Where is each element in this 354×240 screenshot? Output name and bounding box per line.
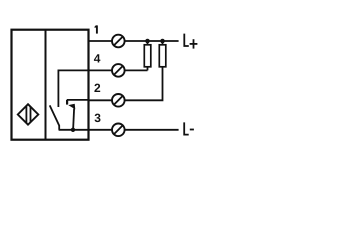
wire 3 box to terminal xyxy=(89,129,113,131)
wire pin4 internal + fixed contact xyxy=(58,70,88,107)
net label L+ xyxy=(184,34,197,49)
sensor body divider xyxy=(45,30,47,140)
wire pin2 internal bar xyxy=(67,99,89,101)
switch blade xyxy=(50,105,60,129)
junction dot common xyxy=(71,128,75,132)
wire 1 to L+ xyxy=(125,40,179,42)
terminal 1 xyxy=(112,35,125,48)
actuation arrow xyxy=(68,104,75,130)
svg-text:4: 4 xyxy=(94,51,101,65)
terminal 4 xyxy=(112,64,125,77)
wire 3 to L- xyxy=(125,129,179,131)
wire 2 box to terminal xyxy=(89,99,113,101)
resistor load 1 xyxy=(144,41,151,70)
svg-text:2: 2 xyxy=(94,81,101,95)
svg-text:3: 3 xyxy=(94,111,101,125)
wire 1 box to terminal xyxy=(89,40,113,42)
sensor body xyxy=(12,30,89,140)
proximity sensor symbol (diamond) xyxy=(18,104,39,125)
wire 4 to load 1 xyxy=(125,69,148,71)
junction dot load1 xyxy=(145,39,150,44)
resistor load 2 xyxy=(159,41,166,67)
net label L- xyxy=(184,122,194,134)
wire 2 to load 2 xyxy=(125,67,163,101)
terminal 2 xyxy=(112,94,125,107)
wire 4 box to terminal xyxy=(89,69,113,71)
junction dot load2 xyxy=(160,39,165,44)
wire common internal xyxy=(59,129,89,131)
pin label 1 xyxy=(95,25,97,33)
contact stub pin2 xyxy=(66,100,68,105)
terminal 3 xyxy=(112,124,125,137)
